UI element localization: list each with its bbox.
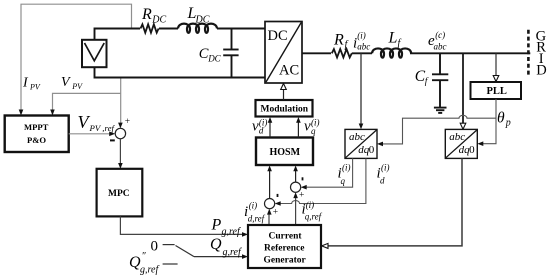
arrow into MPPT top (I_PV) — [19, 110, 24, 116]
svg-text:(i): (i) — [342, 163, 351, 173]
resistor R_DC — [141, 24, 159, 32]
open arrow into converter bottom — [281, 84, 287, 90]
label GRID — [536, 28, 547, 78]
block abc/dq0 left — [345, 129, 377, 158]
switch contact 0 — [163, 244, 175, 246]
switch contact Q'' — [163, 263, 178, 265]
svg-text:+: + — [299, 190, 304, 200]
capacitor C_f — [432, 53, 448, 107]
svg-text:P: P — [211, 217, 222, 234]
svg-text:+: + — [273, 207, 278, 217]
svg-text:AC: AC — [279, 63, 299, 79]
wire I_PV sense loop (top-left gray) — [21, 4, 132, 112]
label theta_p — [497, 109, 511, 128]
arrow into d summing circle right — [275, 201, 281, 206]
svg-text:(i): (i) — [306, 200, 315, 210]
svg-text:Q: Q — [210, 236, 222, 253]
svg-text:MPPT: MPPT — [24, 122, 49, 132]
svg-text:V: V — [61, 75, 71, 90]
svg-text:g,ref: g,ref — [223, 247, 242, 258]
wire Modulation to converter — [283, 89, 285, 100]
arrow into left abc/dq0 right side — [377, 142, 383, 147]
summing circle V — [115, 128, 125, 138]
svg-text:p: p — [505, 118, 511, 129]
inductor L_f — [372, 48, 411, 57]
arrow into CRG left (Q) — [242, 254, 248, 259]
summing circle q — [291, 182, 301, 192]
arrow into right abc/dq0 right side — [477, 141, 483, 146]
svg-text:DC: DC — [195, 14, 210, 25]
svg-text:d: d — [259, 126, 264, 136]
svg-text:DC: DC — [151, 14, 166, 25]
svg-text:(i): (i) — [249, 201, 258, 211]
wire DC- bottom rail — [95, 67, 266, 78]
label I_PV — [22, 76, 41, 92]
svg-text:abc: abc — [349, 131, 365, 143]
block MPPT P&O — [5, 116, 69, 153]
label C_DC — [199, 46, 222, 64]
wire V_PV branch to MPPT — [53, 93, 121, 112]
arrow into q summing circle right — [301, 185, 307, 190]
block HOSM — [256, 138, 313, 166]
wire MPPT to summing circle — [69, 133, 112, 135]
label i_q^(i) — [338, 163, 351, 187]
svg-text:Modulation: Modulation — [261, 105, 309, 115]
wire d circle to HOSM — [269, 169, 271, 199]
wire MPC to CRG (P_g,ref) — [120, 216, 244, 234]
label V_PV — [61, 75, 83, 91]
resistor R_f — [332, 49, 352, 57]
svg-text:0: 0 — [369, 144, 375, 156]
label i_abc^(i) — [353, 31, 370, 52]
label i_d,ref^(i) — [244, 201, 266, 224]
svg-text:PV ,ref: PV ,ref — [89, 123, 116, 133]
block abc/dq0 right — [445, 129, 477, 158]
wire V_PV sense tap — [120, 78, 122, 126]
svg-text:L: L — [388, 29, 398, 46]
wire Q_g,ref to CRG — [194, 256, 245, 258]
arrow into HOSM bottom (d) — [267, 166, 272, 172]
svg-text:PV: PV — [71, 82, 83, 91]
svg-text:d,ref: d,ref — [248, 214, 266, 224]
wire theta_p from PLL to right abc/dq0 — [480, 99, 496, 144]
svg-text:v: v — [304, 119, 311, 135]
wire DC+ between R and L — [159, 28, 178, 30]
svg-text:PLL: PLL — [487, 86, 507, 97]
wire i_d feedback — [278, 158, 366, 203]
open arrow into PLL top — [493, 76, 499, 82]
wire e_abc measurement with hop — [462, 53, 464, 124]
arrow into summing circle top (V_PV +) — [118, 123, 123, 129]
switch arm — [176, 246, 195, 257]
wire theta_p branch to left abc/dq0 — [380, 115, 496, 144]
svg-text:q: q — [311, 126, 316, 136]
svg-text:D: D — [536, 62, 546, 78]
label R_DC — [141, 6, 167, 25]
svg-text:DC: DC — [268, 28, 288, 44]
grid dashed line — [527, 30, 530, 75]
label v_d^(i) — [252, 118, 267, 136]
svg-text:abc: abc — [357, 42, 370, 52]
label Q''_g,ref — [129, 251, 159, 276]
wire e_dq to CRG — [328, 158, 463, 246]
arrow into left abc/dq0 top — [359, 124, 364, 130]
block Current Reference Generator — [248, 225, 321, 268]
ground — [434, 108, 447, 113]
svg-text:(i): (i) — [381, 163, 390, 173]
arrow into CRG left (P) — [242, 232, 248, 237]
svg-text:0: 0 — [151, 239, 159, 255]
label R_f — [333, 32, 349, 51]
svg-text:θ: θ — [497, 109, 505, 126]
label Q_g,ref — [210, 236, 242, 258]
block MPC — [97, 169, 143, 217]
svg-text:(i): (i) — [357, 31, 366, 41]
wire AC rail between R_f and L_f — [352, 52, 372, 54]
svg-text:g,ref: g,ref — [222, 227, 241, 238]
svg-text:+: + — [125, 117, 130, 127]
capacitor C_DC — [223, 29, 238, 78]
svg-text:d: d — [380, 176, 385, 186]
wire q circle to HOSM — [295, 169, 297, 183]
wire i_q,ref from CRG with hop — [295, 196, 297, 225]
minus tick q — [302, 177, 304, 180]
wire HOSM to Modulation (v_q) — [297, 120, 299, 138]
svg-text:Current: Current — [269, 232, 303, 242]
minus V — [110, 139, 115, 141]
wire i_q feedback — [304, 158, 353, 187]
converter U1 DC/AC — [265, 22, 302, 84]
arrow into MPPT top (V_PV) — [50, 110, 55, 116]
wire i_abc measurement — [360, 53, 362, 126]
svg-text:(c): (c) — [435, 30, 445, 40]
wire DC+ top rail — [95, 29, 141, 40]
label V_PV,ref — [78, 112, 116, 133]
svg-text:Reference: Reference — [264, 244, 304, 254]
svg-text:R: R — [333, 32, 344, 49]
arrow into HOSM bottom (q) — [293, 166, 298, 172]
svg-text:q,ref: q,ref — [305, 212, 323, 222]
svg-text:HOSM: HOSM — [270, 147, 301, 158]
label L_DC — [187, 5, 210, 25]
wire summing circle to MPC — [119, 139, 121, 166]
summing circle d — [265, 199, 275, 209]
label P_g,ref — [211, 217, 241, 238]
svg-text:P&O: P&O — [27, 135, 46, 145]
wire i_d,ref from CRG — [268, 212, 270, 225]
wire AC rail right — [410, 52, 530, 54]
arrow into summing circle left — [109, 132, 115, 137]
arrow into Modulation bottom (v_q) — [296, 117, 301, 123]
svg-text:PV: PV — [29, 82, 41, 91]
inductor L_DC — [178, 24, 217, 33]
svg-text:Generator: Generator — [264, 256, 307, 266]
block Modulation — [256, 100, 313, 117]
wire PLL tap — [495, 53, 497, 75]
label L_f — [388, 29, 402, 49]
open arrow into CRG right — [322, 243, 328, 248]
label e_abc^(c) — [428, 30, 447, 52]
label C_f — [415, 68, 429, 87]
minus tick d — [277, 194, 279, 197]
arrow into MPC top — [118, 163, 123, 169]
wire HOSM to Modulation (v_d) — [269, 120, 271, 138]
svg-text:g,ref: g,ref — [140, 265, 159, 276]
svg-text:0: 0 — [469, 144, 475, 156]
arrow into Modulation bottom (v_d) — [268, 117, 273, 123]
block PLL — [471, 82, 522, 99]
svg-text:abc: abc — [434, 42, 447, 52]
wire DC+ from L to converter — [217, 28, 265, 30]
svg-text:q: q — [341, 176, 346, 186]
svg-text:MPC: MPC — [108, 189, 130, 199]
label i_q,ref^(i) — [302, 200, 323, 222]
svg-text:abc: abc — [449, 131, 465, 143]
wire AC rail left — [302, 52, 331, 54]
svg-text:R: R — [141, 6, 152, 23]
svg-text:DC: DC — [207, 53, 221, 63]
open arrow into right abc/dq0 top — [460, 123, 466, 129]
arrow into d circle bottom — [267, 209, 272, 215]
label v_q^(i) — [304, 118, 320, 137]
label i_d^(i) — [377, 163, 390, 186]
PV panel — [82, 40, 107, 67]
arrow into q circle bottom — [293, 192, 298, 198]
